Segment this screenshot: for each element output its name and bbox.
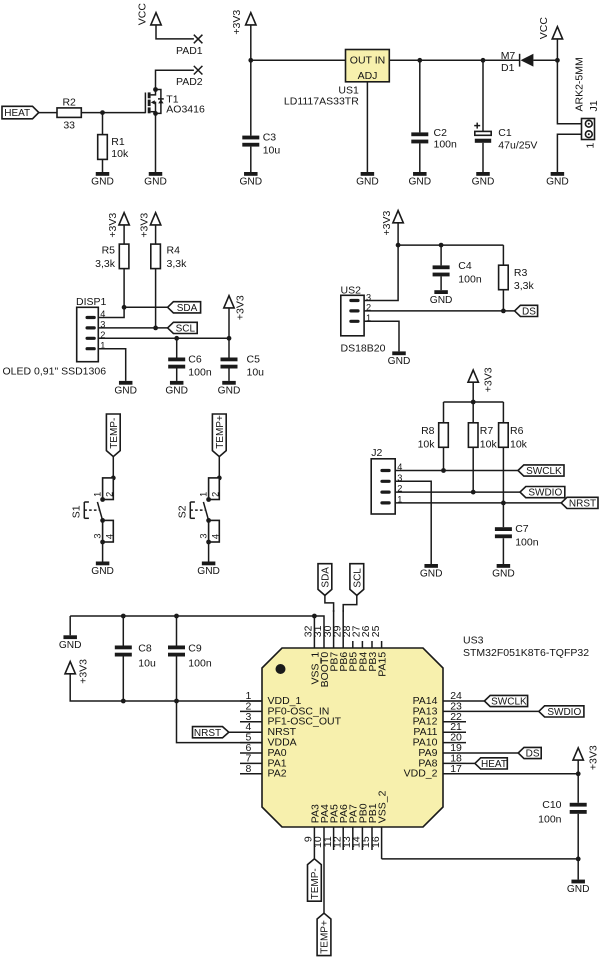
flag SWDIO [520, 487, 565, 499]
svg-text:GND: GND [492, 569, 515, 580]
node C8 bottom junction [121, 699, 126, 704]
svg-text:+3V3: +3V3 [234, 295, 246, 320]
flag SDA [168, 302, 201, 314]
ground C2 [408, 172, 431, 188]
ground C7 [492, 564, 515, 580]
svg-text:1: 1 [585, 143, 597, 149]
ground S2 [197, 562, 220, 578]
resistor R6 [499, 423, 528, 451]
wire pin19 to DS [466, 752, 518, 754]
resistor R3 [499, 265, 535, 292]
flag NRST at US3 [193, 727, 229, 739]
svg-text:PA15: PA15 [377, 652, 389, 677]
wire +3V3 to pin2 rail [228, 308, 230, 358]
wire GND rail left drop [69, 616, 71, 635]
wire +3V3 down to junction [250, 25, 252, 136]
wire pin24 to SWCLK [466, 700, 484, 702]
US3 right pin names [404, 695, 438, 780]
pad PAD2 [176, 66, 203, 88]
svg-text:VCC: VCC [538, 17, 550, 40]
capacitor C2 [411, 127, 457, 151]
ground R1 [91, 172, 114, 188]
node C6 junction [174, 336, 179, 341]
svg-text:GND: GND [546, 177, 569, 188]
node VCC junction [555, 58, 560, 63]
wire US2 pin1 to GND [364, 321, 399, 351]
svg-text:3: 3 [93, 533, 103, 538]
svg-text:HEAT: HEAT [481, 759, 507, 770]
svg-text:HEAT: HEAT [4, 108, 30, 119]
svg-text:100n: 100n [188, 657, 212, 669]
resistor R2 [57, 96, 81, 131]
wire VCC arrow to node [556, 39, 558, 60]
svg-text:C4: C4 [458, 260, 472, 272]
svg-text:TEMP-: TEMP- [310, 868, 321, 899]
svg-text:R8: R8 [421, 425, 435, 437]
svg-text:+3V3: +3V3 [139, 213, 151, 238]
svg-text:10u: 10u [138, 657, 156, 669]
svg-text:GND: GND [165, 385, 188, 396]
svg-text:2: 2 [104, 492, 114, 497]
svg-text:TEMP-: TEMP- [109, 418, 120, 449]
wire J2 pin1 to NRST [395, 502, 561, 504]
switch S1 [71, 476, 116, 545]
svg-text:GND: GND [430, 295, 453, 306]
connector DISP1 [3, 296, 107, 377]
wire pin16 VSS_2 to GND node [382, 858, 579, 860]
wire R8 to SWCLK line [443, 447, 445, 470]
pad PAD1 [176, 35, 203, 57]
svg-text:TEMP+: TEMP+ [320, 920, 331, 954]
node C3 top junction [248, 58, 253, 63]
flag NRST at J2 [561, 497, 598, 509]
svg-text:R5: R5 [102, 245, 116, 257]
svg-text:+3V3: +3V3 [381, 211, 393, 236]
ground US1 ADJ [356, 172, 379, 188]
power +3V3 above C5 [224, 295, 247, 320]
node VSS_2 junction [576, 857, 581, 862]
wire rail to R8 [443, 402, 445, 423]
wire DISP1 pin2 rail [98, 337, 229, 339]
capacitor C9 [168, 643, 212, 670]
ground T1 [144, 172, 167, 188]
flag SWDIO at US3 [539, 706, 584, 718]
node SDA junction [122, 305, 127, 310]
svg-text:3: 3 [199, 533, 209, 538]
svg-text:GND: GND [239, 177, 262, 188]
svg-text:4: 4 [210, 534, 220, 539]
wire TEMP- to S1 [112, 457, 114, 478]
flag TEMP- at S1 [106, 414, 120, 457]
wire C6 [176, 338, 178, 357]
flag SDA at US3 [318, 564, 332, 596]
ground S1 [91, 562, 114, 578]
svg-text:S1: S1 [71, 505, 83, 518]
svg-text:10u: 10u [247, 366, 265, 378]
US3 right pin numbers 24-17 [450, 690, 462, 775]
transistor T1 [145, 87, 205, 116]
svg-text:OUT IN: OUT IN [350, 55, 385, 67]
svg-text:R2: R2 [62, 96, 76, 108]
wire +3V3 to R5 [123, 225, 125, 244]
wire HEAT to R2 [39, 112, 57, 114]
mcu US3 body [262, 634, 589, 827]
svg-text:GND: GND [388, 356, 411, 367]
node C8 top junction [121, 614, 126, 619]
wire NRST flag to pin4 [229, 731, 262, 733]
resistor R8 [418, 423, 449, 451]
svg-text:GND: GND [197, 566, 220, 577]
svg-text:D1: D1 [501, 62, 515, 74]
wire SDA flag to pin30 [325, 595, 334, 612]
wire C5 to GND [228, 369, 230, 381]
svg-text:GND: GND [472, 177, 495, 188]
wire VCC node to J1 pin2 [557, 60, 581, 123]
node DS junction [501, 309, 506, 314]
node C9 bottom junction [174, 699, 179, 704]
US3 bottom pin names [309, 790, 388, 823]
power +3V3 above J2 resistors [468, 367, 494, 392]
resistor R1 [98, 135, 129, 160]
svg-text:VSS_2: VSS_2 [377, 790, 389, 823]
flag DS [515, 305, 538, 317]
wire R1 to GND [102, 159, 104, 172]
svg-text:DISP1: DISP1 [76, 296, 107, 308]
svg-text:S2: S2 [177, 505, 189, 518]
svg-text:US3: US3 [463, 634, 484, 646]
svg-text:25: 25 [370, 625, 382, 637]
ground US2 pin1 [388, 351, 411, 367]
node SCL junction [153, 326, 158, 331]
diode D1 M7 [501, 50, 534, 74]
wire SCL flag to pin29 [343, 595, 357, 612]
wire C3 to GND [250, 147, 252, 172]
capacitor C1 polarized [474, 123, 537, 152]
wire +3V3 to rail [472, 382, 474, 402]
wire R7 to SWDIO line [472, 447, 474, 492]
svg-text:100n: 100n [458, 274, 482, 286]
node C1 junction [481, 58, 486, 63]
wire SDA [124, 306, 168, 308]
svg-text:GND: GND [408, 177, 431, 188]
svg-text:PAD2: PAD2 [176, 76, 203, 88]
wire R3 bottom to DS line [502, 290, 504, 311]
svg-text:SWDIO: SWDIO [547, 707, 581, 718]
wire C4 to GND [440, 276, 442, 290]
switch S2 [177, 476, 222, 545]
svg-text:GND: GND [218, 385, 241, 396]
wire junction to R1 [102, 113, 104, 135]
wire GND rail to US3 pins 32 31 [70, 616, 324, 648]
wire pin17 VDD_2 [466, 773, 578, 775]
svg-text:C5: C5 [247, 354, 261, 366]
power +3V3 above US2 [381, 211, 404, 236]
svg-text:C7: C7 [515, 523, 529, 535]
ground US3 rail [59, 635, 82, 651]
svg-text:100n: 100n [515, 537, 539, 549]
node C2 junction [417, 58, 422, 63]
svg-text:M7: M7 [501, 50, 516, 62]
wire J2 pin3 to GND [395, 481, 431, 564]
svg-text:DS18B20: DS18B20 [341, 342, 386, 354]
svg-text:100n: 100n [434, 139, 458, 151]
US3 left pin stubs [240, 701, 262, 774]
node pin32 junction [312, 614, 317, 619]
ground C3 [239, 172, 262, 188]
svg-text:PA2: PA2 [268, 768, 287, 780]
wire +3V3 down to US2 pin3 [364, 223, 398, 301]
flag SCL [168, 322, 198, 334]
flag HEAT input [2, 106, 39, 119]
flag SCL at US3 [350, 564, 364, 596]
node gate junction [100, 110, 105, 115]
wire C4 top [440, 245, 442, 265]
wire C9 top [176, 616, 178, 646]
svg-text:GND: GND [144, 177, 167, 188]
power +3V3 above R4 [139, 213, 161, 238]
svg-text:R4: R4 [167, 245, 181, 257]
svg-text:GND: GND [567, 884, 590, 895]
svg-text:16: 16 [370, 836, 382, 848]
wire +3V3 rail to R3 [398, 244, 503, 246]
US3 right pin stubs [443, 701, 466, 774]
svg-text:SCL: SCL [176, 324, 196, 335]
wire J1 pin1 to GND [557, 134, 581, 172]
svg-text:+3V3: +3V3 [587, 745, 599, 770]
svg-text:+3V3: +3V3 [231, 10, 243, 35]
wire PAD2 to T1 drain [156, 70, 194, 89]
capacitor C3 [242, 132, 280, 157]
power +3V3 at VDD_2 [573, 745, 599, 770]
svg-text:GND: GND [91, 566, 114, 577]
svg-text:SDA: SDA [321, 567, 332, 588]
svg-text:3: 3 [100, 320, 105, 330]
wire C7 to GND [502, 538, 504, 564]
capacitor C4 [433, 260, 482, 286]
power VCC at J1 [538, 17, 563, 40]
node rail junction [471, 400, 476, 405]
wire rail to R7 [472, 402, 474, 423]
node VDD_2 junction [576, 771, 581, 776]
resistor R5 [95, 244, 129, 270]
wire +3V3 to VDD rail [70, 674, 262, 701]
flag TEMP+ at S2 [212, 414, 226, 457]
wire C1 to GND [482, 143, 484, 172]
svg-text:17: 17 [450, 763, 462, 775]
connector J1 [573, 57, 600, 148]
flag TEMP+ at US3 [317, 913, 331, 955]
US3 bottom pin numbers 9-16 [303, 836, 382, 848]
svg-text:R7: R7 [480, 425, 494, 437]
resistor R7 [468, 423, 497, 451]
ground C10 [567, 880, 590, 896]
svg-text:3,3k: 3,3k [514, 280, 535, 292]
node R8 junction [441, 468, 446, 473]
connector US2 [341, 285, 386, 355]
capacitor C8 [115, 643, 156, 670]
ground C5 [218, 381, 241, 397]
svg-text:GND: GND [59, 640, 82, 651]
svg-text:10k: 10k [480, 439, 498, 451]
wire VDDA branch [177, 701, 263, 743]
wire junction to C1 [482, 60, 484, 131]
svg-text:1: 1 [93, 492, 103, 497]
flag HEAT at US3 [475, 758, 507, 770]
wire TEMP+ to S2 [218, 457, 220, 478]
wire pin18 to HEAT [466, 762, 475, 764]
flag TEMP- at US3 [308, 859, 322, 901]
ground J2 pin3 [420, 564, 443, 580]
node R7 junction [471, 490, 476, 495]
wire R2 to T1 gate [81, 112, 145, 114]
wire SCL [98, 327, 167, 329]
wire C2 to GND [419, 143, 421, 172]
wire +3V3 to VDD_2 node [577, 760, 579, 774]
svg-text:C10: C10 [542, 799, 561, 811]
svg-text:SWCLK: SWCLK [526, 466, 562, 477]
wire VDD_2 node to C10 [577, 774, 579, 803]
svg-text:DS: DS [522, 307, 536, 318]
svg-text:C8: C8 [138, 643, 152, 655]
wire R4 to SCL line [155, 269, 157, 328]
wire junction to US1 OUT [251, 59, 346, 61]
power +3V3 above C3 [231, 10, 256, 35]
svg-text:+3V3: +3V3 [107, 213, 119, 238]
svg-text:TEMP+: TEMP+ [215, 415, 226, 449]
svg-text:C9: C9 [188, 643, 202, 655]
ground DISP1 pin1 [114, 381, 137, 397]
svg-text:R6: R6 [510, 425, 524, 437]
capacitor C6 [168, 354, 212, 379]
wire R3 top [502, 245, 504, 265]
svg-text:+3V3: +3V3 [77, 659, 89, 684]
svg-text:ADJ: ADJ [358, 70, 378, 82]
svg-text:J2: J2 [371, 447, 382, 459]
svg-text:GND: GND [356, 177, 379, 188]
resistor R4 [151, 244, 187, 270]
svg-text:DS: DS [526, 749, 540, 760]
wire T1 source to GND [155, 113, 157, 172]
svg-text:SWDIO: SWDIO [528, 488, 562, 499]
svg-text:OLED 0,91" SSD1306: OLED 0,91" SSD1306 [3, 365, 107, 377]
power +3V3 above R5 [107, 213, 129, 238]
wire R6 to NRST line [502, 447, 504, 527]
wire C8 bottom [122, 657, 124, 702]
svg-text:J1: J1 [588, 100, 600, 111]
US3 left pin names [268, 695, 342, 780]
node C9 top junction [174, 614, 179, 619]
wire D1 to VCC node [533, 59, 557, 61]
node R6 junction [501, 501, 506, 506]
ground C6 [165, 381, 188, 397]
connector J2 [371, 447, 402, 514]
wire US3 pin32 up [313, 616, 315, 648]
wire +3V3 to R4 [155, 225, 157, 244]
wire C9 bottom [176, 657, 178, 702]
svg-text:+3V3: +3V3 [482, 367, 494, 392]
capacitor C10 [538, 799, 587, 826]
svg-text:R1: R1 [111, 136, 125, 148]
wire S1 to GND [102, 542, 104, 562]
svg-text:GND: GND [91, 177, 114, 188]
capacitor C5 [221, 354, 265, 379]
svg-text:10k: 10k [111, 148, 129, 160]
svg-text:10u: 10u [263, 144, 281, 156]
svg-text:3,3k: 3,3k [95, 258, 116, 270]
svg-text:GND: GND [420, 569, 443, 580]
svg-text:SWCLK: SWCLK [491, 697, 527, 708]
svg-text:2: 2 [210, 492, 220, 497]
wire junction to C2 [419, 60, 421, 132]
US3 top pin stubs [334, 610, 382, 648]
svg-text:3,3k: 3,3k [167, 258, 188, 270]
svg-text:10k: 10k [418, 439, 436, 451]
svg-text:4: 4 [100, 309, 105, 319]
regulator US1 [284, 50, 389, 108]
svg-text:100n: 100n [538, 813, 562, 825]
svg-text:47u/25V: 47u/25V [498, 139, 537, 151]
flag DS at US3 [518, 747, 541, 759]
svg-text:US1: US1 [338, 84, 359, 96]
wire DISP1 pin1 to GND [98, 349, 125, 381]
flag SWCLK [518, 465, 564, 477]
svg-text:10k: 10k [510, 439, 528, 451]
svg-text:LD1117AS33TR: LD1117AS33TR [284, 96, 359, 108]
power +3V3 at US3 [65, 659, 89, 684]
svg-text:3: 3 [366, 292, 371, 302]
svg-text:ARK2-5MM: ARK2-5MM [573, 57, 585, 111]
power VCC top-left [136, 3, 161, 26]
wire C10 to GND node [577, 814, 579, 880]
flag SWCLK at US3 [484, 695, 527, 707]
node C5 junction [227, 336, 232, 341]
svg-text:GND: GND [114, 385, 137, 396]
ground C4 [430, 290, 453, 306]
svg-text:STM32F051K8T6-TQFP32: STM32F051K8T6-TQFP32 [463, 647, 589, 659]
capacitor C7 [495, 523, 539, 549]
wire pin23 to SWDIO [466, 710, 539, 712]
wire J2 pin4 to SWCLK [395, 470, 518, 472]
wire S2 to GND [208, 542, 210, 562]
svg-text:8: 8 [245, 763, 251, 775]
wire R5 to DISP1 pin4 [98, 269, 124, 318]
US3 top pin names [309, 652, 388, 688]
wire US2 pin2 to DS flag [364, 310, 514, 312]
ground J1 [546, 172, 569, 188]
svg-text:4: 4 [104, 534, 114, 539]
ground C1 [472, 172, 495, 188]
svg-text:33: 33 [63, 120, 75, 132]
svg-text:US2: US2 [341, 285, 362, 297]
svg-text:NRST: NRST [569, 499, 596, 510]
US3 top pin numbers 32-25 [303, 625, 382, 637]
wire C6 to GND [176, 369, 178, 381]
node C4 junction [439, 243, 444, 248]
wire VCC to PAD1 [156, 25, 194, 39]
wire US1 ADJ to GND [366, 82, 368, 172]
svg-text:AO3416: AO3416 [166, 103, 205, 115]
svg-text:C1: C1 [498, 127, 512, 139]
svg-text:R3: R3 [514, 267, 528, 279]
wire +3V3 rail R8-R6 [444, 401, 504, 403]
svg-text:100n: 100n [188, 366, 212, 378]
US3 bottom pin stubs [314, 827, 381, 913]
svg-text:VDD_2: VDD_2 [404, 768, 438, 780]
wire US1 IN rail [389, 59, 519, 61]
svg-text:C2: C2 [434, 127, 448, 139]
svg-text:NRST: NRST [194, 728, 221, 739]
svg-text:SDA: SDA [177, 303, 198, 314]
